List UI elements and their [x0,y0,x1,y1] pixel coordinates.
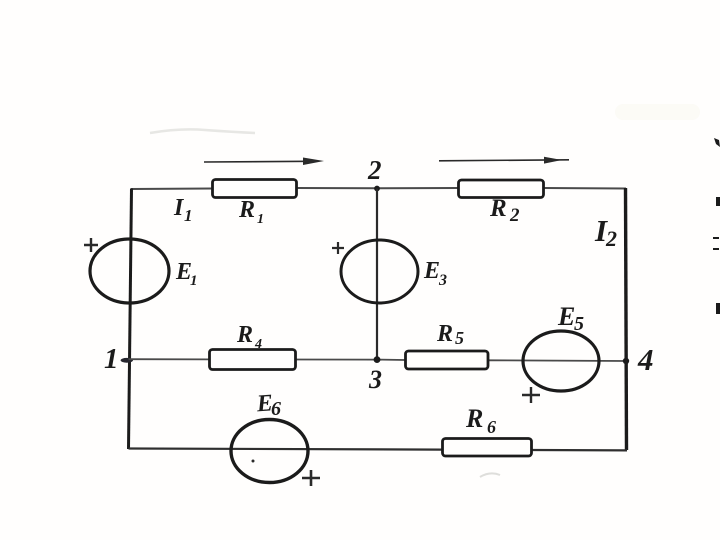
svg-text:R: R [236,322,253,348]
resistor R6 [443,404,532,456]
wire: top between R1 and node 2 [297,187,377,189]
svg-text:R: R [489,195,507,222]
wire: top left segment node1col to R1 [131,188,212,191]
svg-text:E: E [423,258,440,284]
svg-text:R: R [465,404,483,433]
wire: bottom row left corner to R6 [129,449,443,450]
node 1 [104,343,133,375]
svg-text:6: 6 [271,398,281,420]
wire: middle row R5 through E5 to node4 [488,359,626,362]
wire: bottom row R6 to bottom-right corner [532,449,627,452]
resistor R2 [459,180,544,226]
plus of E3 [332,242,344,254]
voltage source E6 [231,390,308,482]
current arrow I1 [173,158,324,226]
wire: middle row node1 to R4 [129,358,210,360]
svg-text:4: 4 [637,342,654,377]
node 2 [367,155,382,191]
svg-text:1: 1 [257,212,264,227]
resistor R4 [210,322,296,370]
svg-text:2: 2 [509,205,520,226]
svg-text:1: 1 [184,206,193,225]
current arrow I2 [439,157,617,251]
stray scan marks right edge [713,138,720,314]
svg-text:2: 2 [605,226,617,251]
resistor R1 [213,180,297,228]
node 4 [623,342,654,377]
voltage source E5 [523,302,599,391]
svg-text:R: R [436,321,453,347]
svg-text:1: 1 [104,343,119,375]
scan smudge top [150,104,700,477]
svg-text:E: E [557,302,575,331]
wire: middle vertical node2 to node3 [376,189,378,360]
svg-text:4: 4 [254,337,262,352]
voltage source E1 [90,239,198,303]
wire: top between R2 and top-right corner [544,187,626,190]
svg-text:2: 2 [367,155,382,185]
svg-text:5: 5 [574,313,584,335]
node 3 [368,356,382,394]
resistor R5 [406,321,489,369]
svg-text:3: 3 [368,365,382,394]
svg-text:6: 6 [487,417,496,437]
wire: left vertical [129,189,132,450]
svg-text:1: 1 [190,273,198,289]
voltage source E3 [341,240,447,303]
wire: top between node 2 and R2 [377,187,458,189]
wire: right vertical [626,188,627,450]
plus of E1 [84,238,98,252]
svg-text:5: 5 [455,328,464,348]
plus of E6 [302,470,320,486]
wire: middle row node3 to R5 [377,359,405,361]
svg-text:3: 3 [438,272,447,289]
wire: middle row R4 to node3 [296,359,377,361]
plus of E5 [522,387,540,403]
svg-text:R: R [238,197,255,223]
